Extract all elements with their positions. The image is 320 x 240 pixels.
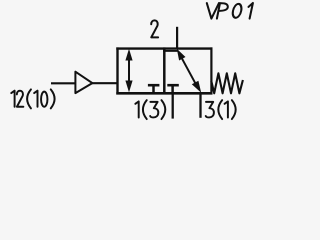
label port 1(3) <box>135 100 165 119</box>
label port 2 <box>151 20 158 37</box>
port 1(3) pipe <box>172 93 174 119</box>
blocked port T (left square) <box>148 85 160 93</box>
wire pilot port 12 <box>51 82 76 84</box>
label port 3(1) <box>206 100 236 119</box>
diagonal flow arrow 2 to 3 (right square) <box>177 49 201 93</box>
port stub line top of right square <box>163 50 178 52</box>
blocked port T (right square) <box>167 85 179 93</box>
label VP01 <box>207 3 253 19</box>
double-headed flow arrow (left square) <box>125 49 132 93</box>
wire pilot to valve <box>92 82 119 84</box>
valve position divider <box>163 47 166 94</box>
port 3(1) pipe <box>199 93 201 118</box>
port 2 line <box>176 27 178 49</box>
label port 12(10) <box>11 89 54 108</box>
pilot actuator triangle <box>75 72 92 93</box>
return spring <box>211 73 243 93</box>
valve body outer box <box>116 47 212 94</box>
